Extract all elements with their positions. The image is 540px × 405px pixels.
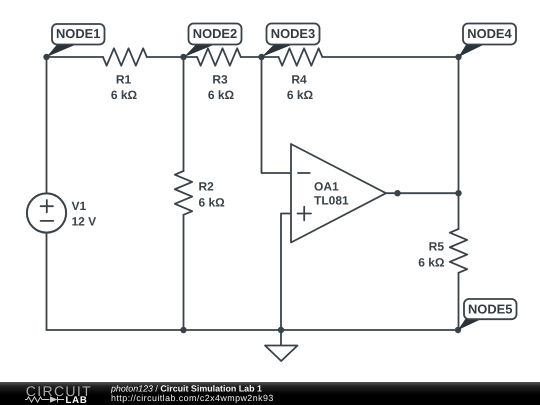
wire bottom rail [47,329,459,331]
node label NODE5 [458,299,517,330]
svg-text:TL081: TL081 [314,194,349,208]
value label OA1 [314,180,349,208]
value label R4 [287,73,314,103]
svg-text:V1: V1 [72,199,87,213]
node dot NODE1 [43,54,49,60]
wire right rail [458,57,460,330]
resistor R4 [279,48,323,65]
svg-text:NODE1: NODE1 [56,26,100,41]
node dot output right junction [455,190,461,196]
op-amp minus marker [298,172,310,174]
node dot NODE4 [455,54,461,60]
svg-text:OA1: OA1 [314,180,339,194]
wire top rail segments [47,56,459,58]
value label R2 [199,180,226,210]
value label R3 [208,73,235,103]
svg-text:12 V: 12 V [72,215,97,229]
svg-text:6 kΩ: 6 kΩ [418,255,445,269]
svg-text:R2: R2 [199,180,215,194]
wire inverting input from NODE3 [262,57,292,173]
svg-text:6 kΩ: 6 kΩ [111,88,138,102]
svg-text:6 kΩ: 6 kΩ [287,88,314,102]
svg-text:NODE3: NODE3 [271,26,315,41]
node dot NODE5 [455,327,461,333]
svg-text:6 kΩ: 6 kΩ [199,196,226,210]
resistor R3 [197,48,241,65]
wire R2 branch [183,57,185,330]
svg-text:R5: R5 [429,240,445,254]
node dot NODE2 [180,54,186,60]
svg-text:NODE2: NODE2 [193,26,237,41]
node label NODE1 [47,24,105,57]
svg-text:R4: R4 [291,73,307,87]
wire op-amp output [386,192,459,194]
node dot ground junction [278,327,284,333]
svg-text:R3: R3 [212,73,228,87]
value label R1 [111,73,138,103]
ground [265,330,298,361]
resistor R2 [175,171,192,215]
op-amp OA1 [291,144,386,243]
op-amp plus marker [298,207,312,221]
footer bar [0,382,540,405]
resistor R1 [103,48,147,65]
value label V1 [72,199,97,229]
svg-text:LAB: LAB [66,395,88,405]
wire left rail [46,57,48,330]
node label NODE2 [184,24,242,58]
svg-text:NODE5: NODE5 [468,302,512,317]
node dot R2 bottom [180,327,186,333]
node dot NODE3 [258,54,264,60]
svg-text:6 kΩ: 6 kΩ [208,88,235,102]
node dot op-amp output [394,190,400,196]
footer logo CIRCUIT LAB [25,383,92,405]
svg-text:R1: R1 [116,73,132,87]
value label R5 [418,240,445,270]
node label NODE4 [459,24,517,58]
voltage source V1 [27,193,66,232]
wire non-inverting input [281,214,291,331]
svg-text:http://circuitlab.com/c2x4wmpw: http://circuitlab.com/c2x4wmpw2nk93 [111,393,274,403]
node label NODE3 [262,24,320,58]
svg-text:photon123 / Circuit Simulation: photon123 / Circuit Simulation Lab 1 [110,383,262,393]
footer title text [110,383,274,403]
svg-text:NODE4: NODE4 [467,26,512,41]
resistor R5 [450,229,467,273]
